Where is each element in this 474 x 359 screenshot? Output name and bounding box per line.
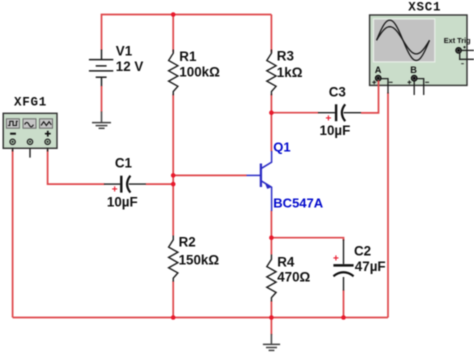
wire ground drop below bottom rail — [270, 318, 272, 336]
wire R2 bottom — [172, 281, 174, 318]
wire R4 bottom — [270, 301, 272, 318]
svg-text:Ext Trig: Ext Trig — [444, 36, 471, 45]
resistor R2 — [169, 236, 178, 282]
function generator XFG1 — [3, 113, 57, 157]
junction emitter node — [269, 235, 274, 240]
oscilloscope XSC1 — [370, 15, 474, 95]
label R2 value — [179, 234, 220, 267]
capacitor C1 — [104, 176, 146, 193]
junction R3 C3 node — [269, 110, 274, 115]
wire R1 top drop — [172, 15, 174, 53]
svg-text:C1: C1 — [115, 156, 133, 171]
svg-text:BC547A: BC547A — [273, 196, 323, 211]
svg-text:+: + — [333, 253, 339, 264]
capacitor C3 — [318, 104, 361, 121]
svg-text:Q1: Q1 — [273, 140, 290, 155]
svg-text:1kΩ: 1kΩ — [277, 65, 303, 80]
ground under battery — [92, 112, 111, 129]
svg-text:R1: R1 — [179, 49, 197, 64]
wire C2 bottom — [343, 290, 345, 318]
wire emitter node to C2 top — [271, 238, 343, 241]
label R4 value — [277, 255, 310, 285]
wire C1 right to divider — [146, 183, 174, 185]
svg-text:10µF: 10µF — [107, 195, 138, 210]
battery V1 — [89, 50, 113, 87]
junction C1 node — [171, 182, 176, 187]
junction base node — [171, 173, 176, 178]
label R1 value — [179, 49, 220, 79]
svg-text:XSC1: XSC1 — [408, 1, 441, 15]
svg-text:C2: C2 — [354, 244, 371, 259]
wire base from divider to Q1 — [173, 174, 246, 176]
resistor R4 — [267, 255, 276, 302]
svg-text:R2: R2 — [179, 234, 196, 249]
svg-text:R4: R4 — [277, 255, 295, 270]
label C1 plus and value — [107, 156, 138, 210]
svg-text:V1: V1 — [116, 44, 133, 59]
resistor R3 — [267, 50, 276, 96]
svg-text:A: A — [375, 65, 382, 75]
wire R4 top — [270, 238, 272, 255]
junction top rail R1 — [171, 12, 176, 17]
wire Q1 emitter down to node — [270, 211, 272, 238]
wire battery minus to ground — [101, 86, 103, 112]
svg-text:100kΩ: 100kΩ — [179, 64, 220, 79]
ground at bottom center — [263, 334, 280, 350]
svg-text:B: B — [410, 65, 417, 75]
svg-text:150kΩ: 150kΩ — [179, 252, 220, 267]
svg-text:12 V: 12 V — [116, 59, 144, 74]
wire node to Q1 collector — [270, 113, 272, 152]
capacitor C2 — [333, 240, 353, 291]
wire bottom rail — [13, 317, 388, 319]
wire C3 right to scope A plus — [361, 81, 379, 113]
wire C1 left from XFG1 plus — [48, 150, 105, 185]
wire divider R1 bottom to R2 top — [172, 94, 174, 236]
wire top rail from V1 plus to R3 top — [102, 15, 272, 51]
wire node to C3 left — [271, 112, 318, 114]
svg-text:R3: R3 — [277, 49, 294, 64]
svg-text:47µF: 47µF — [355, 259, 386, 274]
resistor R1 — [169, 50, 178, 96]
label C3 plus and value — [320, 84, 351, 138]
transistor Q1 — [247, 151, 272, 211]
wire R3 bottom to node — [270, 94, 272, 113]
wire R3 top drop — [270, 15, 272, 53]
label V1 value — [116, 44, 144, 75]
junction ground node — [269, 315, 274, 320]
wire right riser to scope A minus — [387, 93, 389, 318]
junction R2 bottom — [171, 315, 176, 320]
wire XFG1 minus left rail down — [12, 150, 14, 318]
svg-text:470Ω: 470Ω — [277, 270, 310, 285]
svg-text:XFG1: XFG1 — [14, 96, 47, 110]
svg-text:10µF: 10µF — [320, 123, 351, 138]
junction C2 bottom — [341, 315, 346, 320]
label C2 plus and value — [333, 244, 386, 274]
svg-text:C3: C3 — [329, 84, 346, 99]
label R3 value — [277, 49, 303, 81]
